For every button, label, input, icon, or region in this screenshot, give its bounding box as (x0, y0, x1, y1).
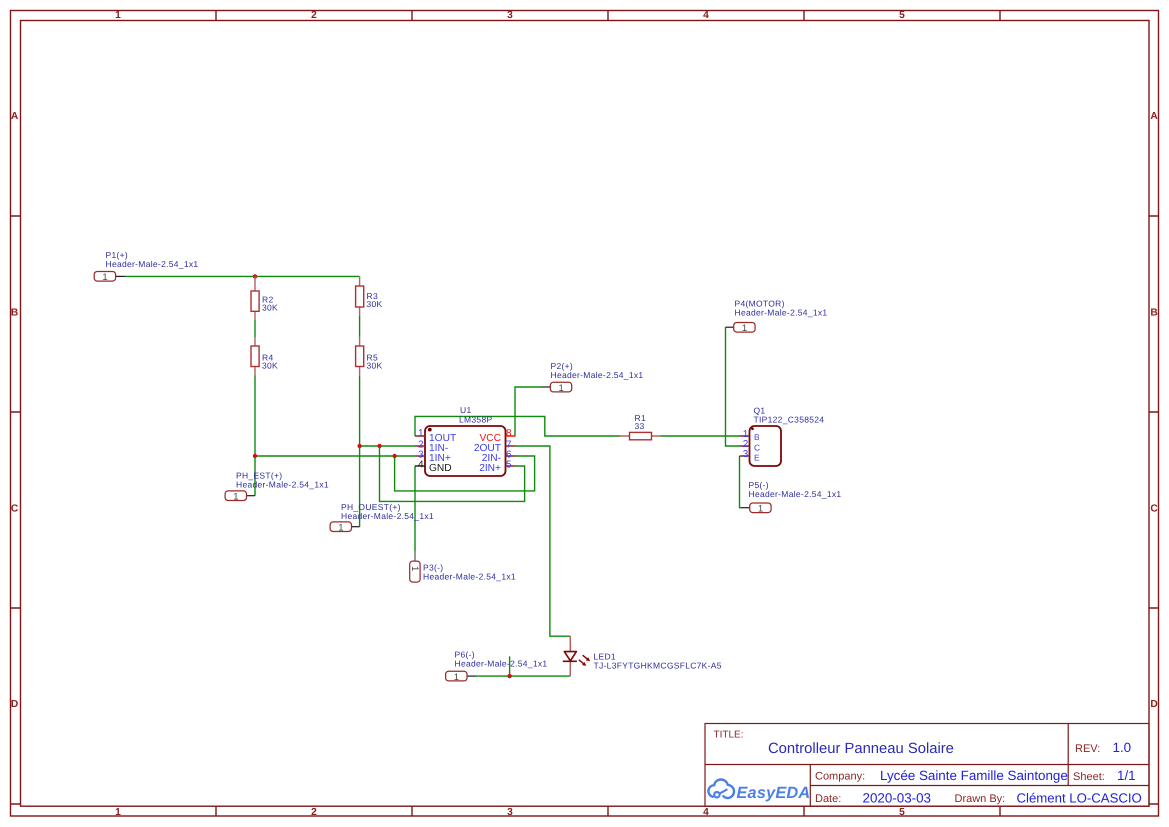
junction 2IN+/1IN- (377, 444, 381, 448)
svg-text:4: 4 (703, 10, 709, 21)
svg-text:Header-Male-2.54_1x1: Header-Male-2.54_1x1 (236, 480, 329, 490)
header P1 (94, 250, 198, 283)
wire R1 to Q1 base (660, 435, 739, 437)
svg-text:1: 1 (558, 383, 563, 394)
wire P4 to Q1 collector (726, 327, 740, 446)
svg-text:5: 5 (506, 460, 512, 471)
wire 1OUT loop to R1 (415, 416, 620, 436)
wire Q1 emitter to P5 (740, 456, 743, 508)
svg-text:Date:: Date: (815, 793, 841, 805)
svg-text:1: 1 (233, 491, 238, 502)
svg-text:1: 1 (418, 428, 424, 439)
wire 2IN+ feedback (380, 446, 525, 501)
EasyEDA logo (708, 780, 734, 798)
title block (705, 724, 1149, 807)
svg-text:D: D (11, 699, 18, 710)
svg-text:5: 5 (899, 807, 905, 818)
wire VCC from P2 to pin8 (515, 387, 541, 436)
svg-text:Lycée Sainte Famille Saintonge: Lycée Sainte Famille Saintonge (880, 768, 1068, 783)
svg-text:C: C (1150, 503, 1158, 514)
U1 pin numbers left (418, 428, 424, 471)
svg-text:Header-Male-2.54_1x1: Header-Male-2.54_1x1 (735, 308, 828, 318)
svg-text:30K: 30K (367, 361, 383, 371)
svg-text:Company:: Company: (815, 770, 865, 782)
svg-text:Header-Male-2.54_1x1: Header-Male-2.54_1x1 (423, 572, 516, 582)
Q1 pin numbers (743, 429, 749, 460)
svg-text:2IN+: 2IN+ (479, 463, 501, 474)
svg-text:B: B (754, 432, 760, 442)
svg-text:1: 1 (742, 323, 747, 334)
svg-text:1/1: 1/1 (1117, 768, 1136, 783)
svg-text:1.0: 1.0 (1113, 740, 1132, 755)
svg-text:REV:: REV: (1075, 743, 1100, 755)
wire 1IN+ row (255, 455, 415, 457)
header P5 (742, 480, 842, 515)
wire LED cathode to P6 (476, 675, 570, 677)
svg-text:EasyEDA: EasyEDA (737, 784, 811, 802)
svg-text:8: 8 (506, 428, 512, 439)
wire R5 to PH_OUEST vertical (359, 376, 361, 527)
svg-text:Clément LO-CASCIO: Clément LO-CASCIO (1017, 790, 1142, 805)
svg-text:C: C (754, 442, 760, 452)
svg-text:1: 1 (338, 522, 343, 533)
svg-text:A: A (11, 111, 19, 122)
wire stub above P6 (509, 656, 511, 676)
header P6 (446, 650, 548, 683)
svg-text:TIP122_C358524: TIP122_C358524 (754, 415, 825, 425)
svg-text:1: 1 (115, 10, 121, 21)
svg-text:Header-Male-2.54_1x1: Header-Male-2.54_1x1 (341, 511, 434, 521)
svg-text:Header-Male-2.54_1x1: Header-Male-2.54_1x1 (106, 259, 199, 269)
op-amp U1 (415, 405, 516, 476)
svg-text:B: B (1150, 307, 1157, 318)
resistor R4 (251, 337, 278, 376)
svg-text:2: 2 (311, 10, 317, 21)
header P3 (409, 552, 516, 582)
svg-text:LM358P: LM358P (459, 414, 492, 424)
svg-text:3: 3 (507, 807, 513, 818)
header PH_OUEST (330, 502, 434, 533)
junction R4/1IN+ (253, 454, 257, 458)
svg-text:1: 1 (102, 272, 107, 283)
header PH_EST (225, 471, 329, 503)
svg-text:Controlleur Panneau Solaire: Controlleur Panneau Solaire (768, 741, 954, 757)
svg-text:Header-Male-2.54_1x1: Header-Male-2.54_1x1 (551, 370, 644, 380)
wire R4 to PH_EST vertical (254, 376, 256, 496)
svg-text:D: D (1150, 699, 1157, 710)
svg-text:GND: GND (429, 463, 452, 474)
svg-text:Header-Male-2.54_1x1: Header-Male-2.54_1x1 (455, 659, 548, 669)
svg-text:4: 4 (418, 460, 424, 471)
resistor R2 (251, 276, 278, 320)
svg-text:Sheet:: Sheet: (1073, 771, 1105, 783)
U1 pin numbers right (506, 428, 512, 471)
svg-text:3: 3 (743, 449, 749, 460)
svg-text:B: B (11, 307, 18, 318)
LED LED1 (563, 636, 722, 676)
wire R2-R4 link (254, 320, 256, 337)
svg-text:30K: 30K (262, 361, 278, 371)
U1 pin names (429, 433, 501, 474)
wire GND to P3 (414, 466, 416, 552)
svg-text:5: 5 (899, 10, 905, 21)
transistor Q1 (740, 406, 825, 467)
resistor R3 (356, 276, 383, 315)
Q1 pin names (754, 432, 760, 462)
wire R3-R5 link (359, 315, 361, 336)
svg-text:4: 4 (703, 807, 709, 818)
svg-text:3: 3 (507, 10, 513, 21)
svg-text:1: 1 (758, 504, 763, 515)
header P4 (726, 299, 828, 335)
junction R5/1IN- (357, 444, 361, 448)
junction P6 wire (507, 674, 511, 678)
junction P1/R2 (253, 274, 257, 278)
resistor R1 (620, 413, 660, 440)
wire 2OUT to LED anode (516, 446, 571, 636)
svg-text:Drawn By:: Drawn By: (955, 793, 1006, 805)
svg-text:2020-03-03: 2020-03-03 (863, 790, 932, 805)
svg-text:30K: 30K (367, 299, 383, 309)
wire net P1 top horizontal (125, 275, 360, 277)
resistor R5 (356, 337, 383, 376)
svg-text:2: 2 (311, 807, 317, 818)
svg-text:TITLE:: TITLE: (714, 730, 744, 741)
svg-text:1: 1 (409, 566, 420, 571)
wire 2IN- feedback (395, 456, 535, 491)
junction 2IN-/1IN+ (392, 454, 396, 458)
svg-text:1: 1 (115, 807, 121, 818)
wire 1IN- row (360, 445, 415, 447)
svg-text:E: E (754, 452, 760, 462)
svg-text:Header-Male-2.54_1x1: Header-Male-2.54_1x1 (749, 489, 842, 499)
svg-text:1: 1 (454, 672, 459, 683)
svg-text:33: 33 (635, 421, 645, 431)
header P2 (541, 361, 643, 394)
svg-text:TJ-L3FYTGHKMCGSFLC7K-A5: TJ-L3FYTGHKMCGSFLC7K-A5 (594, 661, 722, 671)
svg-text:30K: 30K (262, 303, 278, 313)
svg-text:A: A (1150, 111, 1158, 122)
svg-text:C: C (11, 503, 19, 514)
